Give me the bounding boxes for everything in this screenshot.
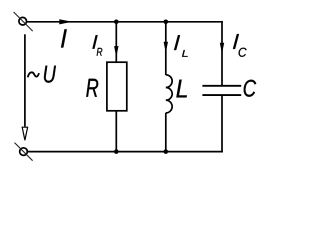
- voltage arrow U (open arrowhead): [22, 127, 27, 140]
- label IC: [233, 34, 239, 49]
- terminal X2 (bottom input): [15, 143, 33, 161]
- node junction bottom L: [164, 149, 169, 154]
- label R: [86, 79, 98, 97]
- wire R branch upper: [115, 22, 117, 62]
- arrow current IL: [164, 42, 168, 53]
- label IL: [174, 35, 180, 50]
- wire L branch upper: [165, 22, 167, 75]
- wire L branch lower: [165, 113, 167, 152]
- label IR: [92, 35, 97, 48]
- label ~ (AC sine): [28, 72, 39, 77]
- arrow current I: [59, 19, 72, 24]
- resistor R: [107, 62, 127, 111]
- inductor L (3 half-loops): [166, 75, 172, 113]
- capacitor C (two plates): [202, 86, 241, 95]
- label L: [176, 80, 186, 98]
- wire left vertical (source branch): [24, 34, 26, 126]
- arrow current IR: [114, 46, 118, 57]
- wire R branch lower: [115, 111, 117, 152]
- label I: [61, 29, 67, 47]
- node junction top L: [164, 20, 169, 25]
- wire C branch upper: [221, 21, 223, 86]
- wire top horizontal: [27, 21, 223, 23]
- wire C branch lower: [221, 95, 223, 152]
- arrow current IC: [220, 43, 224, 54]
- node junction top R: [114, 20, 119, 25]
- label U: [44, 66, 56, 83]
- label C: [244, 80, 257, 97]
- wire bottom horizontal: [27, 151, 222, 153]
- terminal X1 (top input): [14, 12, 33, 31]
- node junction bottom R: [114, 149, 119, 154]
